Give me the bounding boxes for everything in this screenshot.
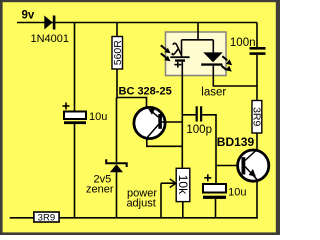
wire: right column from rail <box>256 23 258 48</box>
transistor Q1 BC328-25 PNP <box>134 107 165 138</box>
wire: bottom rail left segment <box>10 217 35 219</box>
wire: 3R9 to BD139 collector <box>256 133 258 150</box>
wire: internal horizontal <box>182 39 214 41</box>
plus sign of C1 <box>63 103 70 110</box>
wire: BC328 collector elbow <box>147 137 183 146</box>
plus sign of C4 <box>204 174 211 181</box>
potentiometer VR1 10k <box>176 168 190 201</box>
lambda symbol <box>172 43 181 54</box>
svg-text:adjust: adjust <box>126 198 155 210</box>
wiper arrow of VR1 <box>161 179 176 188</box>
wire: BD139 emitter to bottom rail <box>256 182 258 219</box>
wire: zener to bottom rail <box>116 172 118 218</box>
wire: junction to BC328 emitter elbow <box>117 98 147 108</box>
emitted light arrows <box>221 56 232 71</box>
wire: column down to zener <box>116 98 118 163</box>
laser LED D2 <box>201 40 223 76</box>
resistor R3 3R9 (bottom) <box>34 212 59 224</box>
svg-text:560R: 560R <box>112 40 124 66</box>
capacitor C3 100p <box>196 106 203 121</box>
wire: 100n to 3R9 <box>256 55 258 101</box>
wire: photodiode column below box <box>181 76 183 169</box>
wire: base branch <box>216 165 238 167</box>
transistor Q2 BD139 NPN <box>238 150 269 181</box>
wire: BC328 base to node <box>161 121 183 123</box>
svg-text:10u: 10u <box>228 186 246 198</box>
wire: C4 to bottom rail <box>215 199 217 218</box>
wire: left column lower <box>74 124 76 218</box>
diode D1 1N4001 <box>44 16 55 30</box>
wire: photodiode anode lead <box>181 40 183 58</box>
capacitor C1 10u electrolytic <box>64 112 86 125</box>
laser module box <box>166 32 227 76</box>
svg-text:100p: 100p <box>186 124 212 136</box>
wire: laser cathode to right column <box>213 76 257 87</box>
svg-text:10k: 10k <box>176 175 190 195</box>
svg-text:zener: zener <box>86 184 114 196</box>
svg-text:3R9: 3R9 <box>250 107 262 126</box>
wire: 100p right lead to BD139 base column <box>202 115 216 185</box>
wire: pot bottom lead <box>182 201 184 218</box>
svg-text:10u: 10u <box>89 111 107 123</box>
svg-text:BD139: BD139 <box>217 135 255 149</box>
capacitor C4 10u electrolytic (right) <box>203 184 226 199</box>
wire: photodiode cathode lead <box>181 62 183 76</box>
svg-text:1N4001: 1N4001 <box>31 33 70 45</box>
wire: wiper to bottom rail <box>160 183 162 218</box>
svg-text:100n: 100n <box>230 37 256 49</box>
resistor R2 3R9 (right) <box>250 101 262 134</box>
svg-text:9v: 9v <box>22 10 35 22</box>
svg-text:laser: laser <box>201 86 226 98</box>
plus sign of photodiode <box>174 62 181 68</box>
wire: 560R to junction <box>116 69 118 98</box>
photodiode plates <box>170 56 189 61</box>
wire: left column (10u branch) <box>74 23 76 113</box>
incoming light arrows <box>161 45 171 61</box>
wire: bottom rail main <box>59 217 258 219</box>
svg-text:BC 328-25: BC 328-25 <box>119 86 172 98</box>
wire: 100p left lead <box>182 114 196 116</box>
svg-text:3R9: 3R9 <box>38 213 55 224</box>
wire: laser box entry from rail <box>197 23 199 41</box>
zener diode ZD1 2v5 <box>106 159 127 172</box>
resistor R1 560R <box>112 37 124 70</box>
capacitor C2 100n <box>250 47 266 55</box>
wire: top rail <box>17 22 257 24</box>
wire: 560R column top <box>116 23 118 37</box>
